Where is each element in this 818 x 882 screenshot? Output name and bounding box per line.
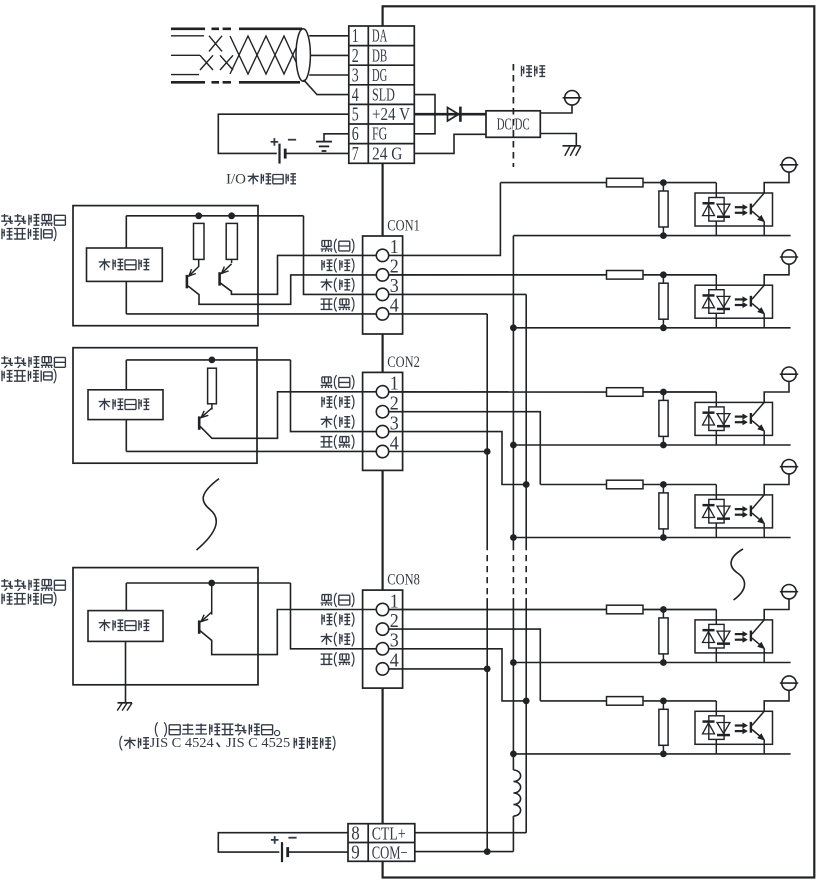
junction dot row 6 top bbox=[660, 698, 667, 705]
opto PC3 LED up diode bbox=[703, 411, 715, 414]
transistor Qd collector bbox=[211, 583, 213, 615]
opto PC1 phototransistor bbox=[750, 204, 752, 215]
CON1 pin 1 bbox=[376, 249, 388, 261]
note: per JIS C 4524 / 4525 bbox=[120, 736, 122, 750]
LED terminal symbol row 4 bbox=[782, 460, 796, 474]
opto PC2 LED input bbox=[715, 275, 717, 290]
I/O module outline box bbox=[383, 6, 815, 877]
opto PC4 LED up diode bbox=[703, 504, 715, 507]
resistor R3a (series) bbox=[607, 388, 644, 397]
wire color label 蓝(黑) bbox=[321, 654, 333, 664]
opto PC6 collector to LED terminal bbox=[764, 690, 789, 711]
svg-text:7: 7 bbox=[352, 144, 359, 165]
wire DA bbox=[309, 35, 349, 37]
wire CON8 pin3 to bus bbox=[389, 649, 527, 701]
sensor1 top rail to pin3 bbox=[304, 216, 377, 295]
optocoupler PC1 box bbox=[695, 193, 773, 226]
svg-text:6: 6 bbox=[352, 124, 359, 145]
resistor Ra bbox=[194, 223, 205, 259]
resistor R5a (series) bbox=[607, 605, 644, 614]
opto PC2 LED up diode bbox=[703, 294, 715, 297]
opto row 5 input rail bbox=[389, 609, 717, 611]
opto PC5 LED pair frame bbox=[709, 624, 724, 648]
wire CTL+ to battery bbox=[218, 833, 348, 852]
opto PC2 emitter out bbox=[763, 314, 765, 328]
opto row 4 return rail bbox=[513, 537, 790, 539]
optocoupler PC6 box bbox=[695, 711, 773, 744]
junction dot sensor2 bbox=[209, 357, 216, 364]
svg-text:8: 8 bbox=[351, 824, 360, 845]
CON1 pin 4 bbox=[376, 308, 388, 320]
LED terminal symbol row 5 bbox=[782, 585, 796, 599]
junction COM- / pin4 bus bbox=[484, 848, 491, 855]
svg-text:+24 V: +24 V bbox=[372, 104, 410, 124]
junction CON2 pin3 / bus bbox=[523, 481, 530, 488]
junction dot row 5 bottom bbox=[660, 659, 667, 666]
transistor Qc emitter to pin1 bbox=[200, 392, 376, 439]
terminal block TB1 pins 1-7 bbox=[349, 26, 415, 163]
wire color label 蓝(黑) bbox=[321, 437, 333, 447]
wire CON2 pin2 to opto4 bbox=[389, 412, 541, 485]
opto PC1 LED pair frame bbox=[709, 198, 724, 222]
opto PC3 phototransistor bbox=[750, 413, 752, 424]
opto PC3 emitter out bbox=[763, 431, 765, 445]
resistor R4a (series) bbox=[607, 480, 644, 489]
opto PC5 phototransistor bbox=[750, 631, 752, 642]
junction dots opto returns on bus bbox=[510, 324, 517, 331]
transistor Qb emitter to pin1 bbox=[221, 255, 377, 294]
insulation boundary (dashed) bbox=[512, 64, 514, 167]
svg-text:CTL+: CTL+ bbox=[372, 823, 406, 843]
LED indicator terminal symbol bbox=[565, 91, 580, 106]
wire color label 茶(红) bbox=[321, 279, 333, 291]
svg-text:DB: DB bbox=[372, 45, 387, 65]
svg-text:JIS C 4525: JIS C 4525 bbox=[226, 735, 290, 750]
svg-text:DG: DG bbox=[372, 65, 387, 85]
opto PC3 light arrows bbox=[735, 416, 743, 418]
resistor Rb bbox=[226, 223, 237, 259]
transistor Qa collector bbox=[198, 259, 200, 266]
junction dot row 6 bottom bbox=[660, 751, 667, 758]
opto PC3 LED input bbox=[715, 392, 717, 407]
opto PC4 collector to LED terminal bbox=[764, 474, 789, 495]
junction CON2 pin4 / bus bbox=[484, 448, 491, 455]
sensor2 top rail bbox=[126, 359, 290, 361]
svg-text:JIS C 4524: JIS C 4524 bbox=[150, 735, 214, 750]
LED terminal symbol row 3 bbox=[782, 367, 796, 381]
CON2 pin 2 bbox=[376, 406, 388, 418]
wire color label 橙(橙) bbox=[322, 614, 333, 624]
wire +24V to battery bbox=[218, 114, 348, 153]
opto row 3 return rail bbox=[513, 444, 790, 446]
sensor block 1 box bbox=[73, 206, 258, 326]
CON8 pin 1 bbox=[376, 603, 388, 615]
opto PC1 LED input bbox=[715, 183, 717, 198]
wire CON8 pin4 to bus bbox=[389, 668, 488, 670]
opto PC1 collector to LED terminal bbox=[764, 172, 789, 193]
junction dots sensor1 bbox=[195, 212, 202, 219]
wire +24V (bold) bbox=[414, 113, 486, 116]
resistor R4b (shunt) bbox=[662, 485, 664, 538]
opto PC3 collector to LED terminal bbox=[764, 381, 789, 402]
wire CTL+ to bus bbox=[415, 832, 526, 834]
wire color label 茶(红) bbox=[321, 633, 333, 645]
break squiggle left bbox=[197, 479, 220, 550]
opto PC1 emitter out bbox=[763, 222, 765, 236]
CON2 pin 1 bbox=[376, 386, 388, 398]
sensor3 ground stem bbox=[125, 641, 127, 702]
battery BT1 (I/O module power) bbox=[278, 144, 280, 164]
wire color label 橙(橙) bbox=[322, 260, 333, 270]
svg-text:FG: FG bbox=[372, 124, 387, 144]
opto PC6 phototransistor bbox=[750, 722, 752, 733]
opto PC6 LED input bbox=[715, 701, 717, 716]
opto PC2 LED down diode bbox=[717, 296, 730, 307]
opto PC6 emitter out bbox=[763, 740, 765, 754]
svg-text:4: 4 bbox=[352, 85, 359, 106]
sensor1 bottom rail to pin4 bbox=[126, 313, 376, 315]
CON1 pin 3 bbox=[376, 288, 388, 300]
DC/DC converter U1 bbox=[486, 111, 540, 138]
opto row 5 return rail bbox=[513, 662, 790, 664]
detection circuit box 3 bbox=[88, 611, 163, 642]
wire DC/DC to chassis ground bbox=[540, 134, 576, 146]
LED terminal symbol row 2 bbox=[782, 250, 796, 264]
junction dot row 1 top bbox=[660, 179, 667, 186]
chassis ground (sensor3) bbox=[118, 702, 133, 704]
sensor2 left wires bbox=[125, 360, 127, 390]
label insulation bbox=[522, 66, 533, 77]
resistor R6b (shunt) bbox=[662, 701, 664, 754]
opto row 1 return rail bbox=[513, 235, 790, 237]
optocoupler PC3 box bbox=[695, 402, 773, 435]
transistor Qc collector bbox=[211, 404, 213, 410]
wire COM- to bus bbox=[415, 851, 514, 853]
LED terminal symbol row 1 bbox=[782, 158, 796, 172]
opto PC5 light arrows bbox=[735, 633, 743, 635]
bus pin3 common / CTL+ (x=526) bbox=[525, 294, 527, 544]
resistor R1a (series) bbox=[607, 178, 644, 187]
sensor transistor bbox=[218, 272, 221, 285]
wire CON2 pin1 to opto3 bbox=[389, 391, 717, 393]
note: colors of old core wires bbox=[155, 722, 157, 736]
sensor3 top rail bbox=[126, 582, 290, 584]
detection circuit box 1 bbox=[87, 248, 163, 281]
junction CON8 pin4 / bus bbox=[484, 666, 491, 673]
opto PC5 LED down diode bbox=[717, 631, 730, 642]
wire CON2 pin3 to bus bbox=[389, 432, 527, 485]
opto PC4 LED down diode bbox=[717, 506, 730, 517]
sensor1 top rail bbox=[126, 215, 303, 217]
opto row 6 return rail bbox=[513, 753, 790, 755]
wire color label 茶(红) bbox=[321, 416, 333, 428]
chassis ground (DC/DC) bbox=[563, 145, 581, 147]
svg-text:3: 3 bbox=[352, 65, 359, 86]
opto PC3 LED down diode bbox=[717, 414, 730, 425]
opto PC6 LED up diode bbox=[703, 720, 715, 723]
junction CON8 pin3 / bus bbox=[523, 698, 530, 705]
opto PC6 LED pair frame bbox=[709, 716, 724, 740]
optocoupler PC5 box bbox=[695, 620, 773, 653]
optocoupler PC4 box bbox=[695, 495, 773, 528]
svg-text:I/O: I/O bbox=[226, 171, 246, 187]
wire battery to 24G bbox=[285, 152, 349, 154]
inductor L1 (coil) bbox=[513, 770, 520, 816]
svg-text:24 G: 24 G bbox=[372, 143, 403, 163]
label 2-wire sensor (sink output) bbox=[1, 579, 13, 591]
sensor2 top rail to pin3 bbox=[291, 360, 377, 432]
junction dot sensor3 bbox=[208, 580, 215, 587]
junction dot row 3 bottom bbox=[660, 442, 667, 449]
opto PC5 collector to LED terminal bbox=[764, 599, 789, 620]
break squiggle right bbox=[731, 549, 745, 600]
opto PC2 light arrows bbox=[735, 298, 743, 300]
svg-text:1: 1 bbox=[352, 26, 359, 47]
sensor transistor bbox=[198, 620, 201, 633]
shielded twisted-pair cable bbox=[171, 29, 302, 83]
opto row 3 input rail bbox=[389, 391, 717, 393]
CON2 pin 3 bbox=[376, 425, 388, 437]
junction dot row 2 bottom bbox=[660, 324, 667, 331]
sensor1 left wires bbox=[125, 216, 127, 248]
resistor R2a (series) bbox=[607, 271, 644, 280]
wire CON8 pin1 to opto5 bbox=[389, 609, 717, 611]
resistor R3b (shunt) bbox=[662, 392, 664, 445]
opto PC4 LED pair frame bbox=[709, 499, 724, 523]
sensor3 top rail to pin3 bbox=[291, 583, 377, 649]
resistor R1b (shunt) bbox=[662, 183, 664, 236]
CON1 pin 2 bbox=[376, 269, 388, 281]
opto PC4 LED input bbox=[715, 485, 717, 500]
opto row 1 input rail bbox=[500, 182, 716, 184]
CON8 pin 3 bbox=[376, 643, 388, 655]
cable end ellipse bbox=[296, 29, 310, 81]
resistor R5b (shunt) bbox=[662, 610, 664, 663]
sensor transistor bbox=[198, 416, 201, 429]
optocoupler PC2 box bbox=[695, 285, 773, 318]
earth ground at FG bbox=[324, 134, 349, 142]
junction dot row 4 bottom bbox=[660, 534, 667, 541]
opto PC5 emitter out bbox=[763, 648, 765, 662]
LED terminal symbol row 6 bbox=[782, 676, 796, 690]
svg-text:DA: DA bbox=[372, 26, 387, 46]
opto PC4 light arrows bbox=[735, 508, 743, 510]
sensor3 left wire bbox=[125, 583, 127, 611]
wire DG bbox=[309, 74, 349, 76]
connector CON1 bbox=[363, 236, 403, 334]
opto PC1 light arrows bbox=[735, 206, 743, 208]
opto row 2 input rail bbox=[389, 274, 717, 276]
wire color label 黑(白) bbox=[321, 241, 333, 252]
junction dot row 1 bottom bbox=[660, 232, 667, 239]
svg-text:SLD: SLD bbox=[372, 85, 395, 105]
CON8 pin 4 bbox=[376, 663, 388, 675]
bus opto return (x=513) bbox=[512, 236, 514, 544]
label 2-wire sensor (sink output) bbox=[1, 214, 13, 226]
wire SLD (shield drain) bbox=[304, 80, 349, 95]
junction dot row 5 top bbox=[660, 606, 667, 613]
resistor R2b (shunt) bbox=[662, 275, 664, 328]
wire CON2 pin4 to bus bbox=[389, 451, 488, 453]
opto PC2 LED pair frame bbox=[709, 290, 724, 314]
opto PC2 phototransistor bbox=[750, 296, 752, 307]
svg-text:2: 2 bbox=[352, 46, 359, 67]
junction dot row 4 top bbox=[660, 481, 667, 488]
opto PC4 emitter out bbox=[763, 523, 765, 537]
wire CON1 pin1 to opto1 bbox=[389, 183, 501, 256]
svg-text:CON8: CON8 bbox=[387, 572, 420, 589]
diode D1 bbox=[448, 108, 459, 122]
bus pin4 common (x=487) bbox=[486, 314, 488, 544]
sensor block 2 box bbox=[73, 348, 257, 464]
opto PC1 LED up diode bbox=[703, 202, 715, 205]
resistor R6a (series) bbox=[607, 697, 644, 706]
opto PC6 light arrows bbox=[735, 724, 743, 726]
wire 24G to DC/DC bbox=[414, 134, 486, 153]
connector CON2 bbox=[363, 372, 403, 470]
wire color label 橙(橙) bbox=[322, 397, 333, 407]
svg-text:5: 5 bbox=[352, 105, 359, 126]
transistor Qa emitter to pin2 bbox=[188, 275, 376, 304]
label 2-wire sensor (sink output) bbox=[1, 356, 13, 368]
wire bracket SLD to FG bbox=[414, 95, 435, 134]
opto PC4 phototransistor bbox=[750, 506, 752, 517]
opto PC1 LED down diode bbox=[717, 204, 730, 215]
detection circuit box 2 bbox=[88, 390, 163, 420]
sensor2 bottom rail to pin4 bbox=[126, 450, 376, 452]
CON8 pin 2 bbox=[376, 623, 388, 635]
opto PC5 LED up diode bbox=[703, 629, 715, 632]
svg-text:CON1: CON1 bbox=[387, 218, 420, 235]
sensor block 3 box bbox=[73, 568, 258, 685]
wire color label 黑(白) bbox=[321, 377, 333, 388]
opto row 6 input rail bbox=[540, 700, 716, 702]
junction dot row 2 top bbox=[660, 271, 667, 278]
opto row 2 return rail bbox=[513, 327, 790, 329]
wire CON1 pin2 to opto2 bbox=[389, 274, 717, 276]
transistor Qd emitter to pin1 bbox=[200, 610, 376, 655]
transistor Qb collector bbox=[231, 259, 233, 263]
battery BT2 (external supply) bbox=[281, 842, 283, 862]
opto PC6 LED down diode bbox=[717, 723, 730, 734]
svg-text:9: 9 bbox=[351, 843, 360, 864]
wire DC/DC output to LED terminal bbox=[540, 105, 572, 113]
resistor Rc bbox=[208, 368, 217, 404]
wire CON1 pin3 to bus bbox=[389, 293, 527, 295]
wire CON1 pin4 to bus bbox=[389, 313, 488, 315]
opto PC5 LED input bbox=[715, 610, 717, 625]
sensor transistor bbox=[186, 275, 189, 288]
wire battery to COM- bbox=[288, 851, 348, 853]
wire color label 蓝(黑) bbox=[321, 299, 333, 309]
wire CON8 pin2 to opto6 bbox=[389, 629, 541, 701]
opto row 4 input rail bbox=[540, 484, 716, 486]
wire color label 黑(白) bbox=[321, 595, 333, 606]
opto PC2 collector to LED terminal bbox=[764, 264, 789, 285]
svg-text:COM−: COM− bbox=[372, 842, 408, 862]
terminal block TB2 pins 8-9 bbox=[348, 824, 415, 862]
svg-text:CON2: CON2 bbox=[387, 354, 420, 371]
opto PC3 LED pair frame bbox=[709, 407, 724, 431]
wire DB bbox=[310, 54, 348, 56]
connector CON8 bbox=[363, 590, 403, 688]
junction dot row 3 top bbox=[660, 389, 667, 396]
CON2 pin 4 bbox=[376, 445, 388, 457]
